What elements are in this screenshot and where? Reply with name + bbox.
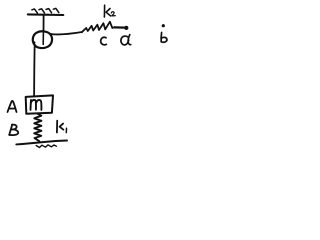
label m bbox=[31, 100, 42, 110]
spring k2 bbox=[82, 22, 115, 33]
label B bbox=[9, 125, 18, 136]
spring k2 end link bbox=[115, 26, 125, 29]
ceiling support line bbox=[28, 13, 64, 16]
ceiling hatch tick 2 bbox=[39, 9, 45, 13]
label k2 bbox=[104, 5, 115, 17]
mass box bbox=[26, 95, 53, 113]
node a dot (spring end) bbox=[124, 26, 128, 30]
label A bbox=[8, 101, 17, 112]
label a bbox=[121, 35, 131, 45]
label k1 bbox=[57, 121, 67, 133]
label b bbox=[161, 33, 167, 43]
node b dot bbox=[162, 24, 165, 27]
ground hatch squiggle bbox=[36, 145, 56, 148]
ceiling hatch tick 1 bbox=[32, 9, 38, 13]
spring k1 bbox=[34, 114, 41, 141]
label c bbox=[101, 37, 107, 45]
pulley wheel bbox=[33, 31, 52, 48]
ground line bbox=[16, 141, 67, 145]
ceiling hatch tick 4 bbox=[53, 8, 59, 12]
ceiling hatch tick 3 bbox=[46, 9, 52, 13]
pulley axle mark bbox=[42, 32, 44, 45]
pulley hanger rod bbox=[43, 15, 45, 31]
rope from pulley to spring k2 bbox=[51, 32, 82, 34]
rope from pulley down to mass bbox=[33, 47, 36, 96]
